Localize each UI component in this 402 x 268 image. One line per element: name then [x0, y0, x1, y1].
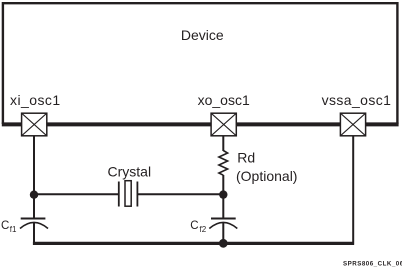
wire resistor Rd to node B — [222, 175, 224, 195]
svg-text:xi_osc1: xi_osc1 — [10, 92, 61, 108]
ground rail wire (bottom) — [33, 242, 354, 245]
wire capacitor Cf1 to ground rail — [33, 223, 35, 244]
pin vssa_osc1 terminal symbol — [340, 113, 365, 136]
device U1 (Device block outline) — [3, 3, 398, 124]
capacitor Cf2 curved plate — [209, 222, 237, 228]
svg-text:(Optional): (Optional) — [236, 168, 297, 184]
node A junction dot — [30, 191, 38, 199]
svg-text:vssa_osc1: vssa_osc1 — [322, 92, 392, 108]
svg-text:f2: f2 — [200, 225, 207, 234]
junction dot Cf2 / rail — [219, 239, 228, 248]
device bottom edge (thick rail) — [2, 122, 399, 126]
capacitor Cf1 top plate — [21, 218, 46, 220]
svg-text:Crystal: Crystal — [108, 164, 152, 180]
pin xo_osc1 terminal symbol — [211, 113, 236, 136]
node B junction dot — [219, 190, 227, 198]
wire node A to crystal left plate — [34, 193, 119, 195]
wire vssa_osc1 pin to ground rail — [352, 135, 354, 245]
capacitor Cf2 top plate — [211, 218, 236, 220]
svg-text:xo_osc1: xo_osc1 — [198, 92, 250, 108]
wire node A to capacitor Cf1 top plate — [33, 195, 35, 219]
wire capacitor Cf2 to ground rail — [222, 223, 224, 244]
pin xi_osc1 terminal symbol — [22, 113, 47, 136]
capacitor Cf1 curved plate — [20, 222, 48, 228]
wire node B to capacitor Cf2 top plate — [222, 195, 224, 219]
crystal Y1 left plate — [118, 182, 120, 207]
crystal Y1 body — [125, 181, 131, 207]
svg-text:SPRS806_CLK_06: SPRS806_CLK_06 — [343, 261, 402, 268]
crystal Y1 right plate — [136, 182, 138, 207]
wire xi_osc1 pin to node A — [33, 135, 35, 195]
svg-text:Device: Device — [181, 27, 224, 43]
svg-text:C: C — [1, 220, 9, 232]
resistor Rd — [219, 151, 228, 176]
svg-text:f1: f1 — [10, 225, 17, 234]
wire xo_osc1 pin to resistor Rd — [222, 135, 224, 151]
wire crystal right plate to node B — [137, 193, 223, 195]
svg-text:C: C — [190, 220, 198, 232]
svg-text:Rd: Rd — [237, 150, 255, 166]
